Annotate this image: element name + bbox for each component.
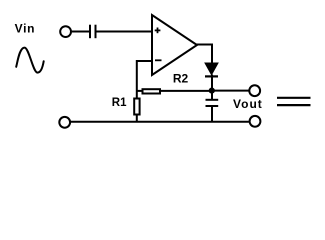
wire diode to output node <box>211 75 213 92</box>
output terminal bottom <box>250 116 261 127</box>
capacitor C2 <box>206 100 219 106</box>
wire op-amp - input <box>136 60 152 62</box>
svg-text:Vout: Vout <box>233 97 263 111</box>
AC source sine wave <box>16 48 44 73</box>
svg-text:Vin: Vin <box>15 22 36 36</box>
wire node to R2 <box>137 90 143 92</box>
wire R1 to ground rail <box>136 115 138 123</box>
capacitor C1 <box>90 25 96 39</box>
wire C1 to op-amp + input <box>97 31 153 33</box>
input terminal <box>60 26 71 37</box>
wire feedback vertical <box>136 60 138 99</box>
ground rail wire <box>71 121 249 123</box>
svg-text:R2: R2 <box>173 72 189 86</box>
op-amp U1 <box>152 15 197 75</box>
op-amp + pin marking <box>155 28 161 34</box>
wire C2 to ground rail <box>211 106 213 122</box>
diode D1 <box>205 63 218 76</box>
node junction dot <box>209 88 215 94</box>
wire op-amp output <box>196 45 212 65</box>
svg-text:R1: R1 <box>112 97 127 109</box>
wire R2 to output node <box>161 90 211 92</box>
wire input terminal to C1 <box>72 31 89 33</box>
wire output node to Vout terminal <box>212 90 249 92</box>
op-amp - pin marking <box>155 59 162 61</box>
wire node to capacitor C2 <box>211 91 213 99</box>
output terminal top <box>249 85 260 96</box>
DC output symbol <box>277 98 311 105</box>
resistor R1 <box>134 99 139 115</box>
resistor R2 <box>143 89 161 93</box>
ground terminal left <box>59 117 70 128</box>
